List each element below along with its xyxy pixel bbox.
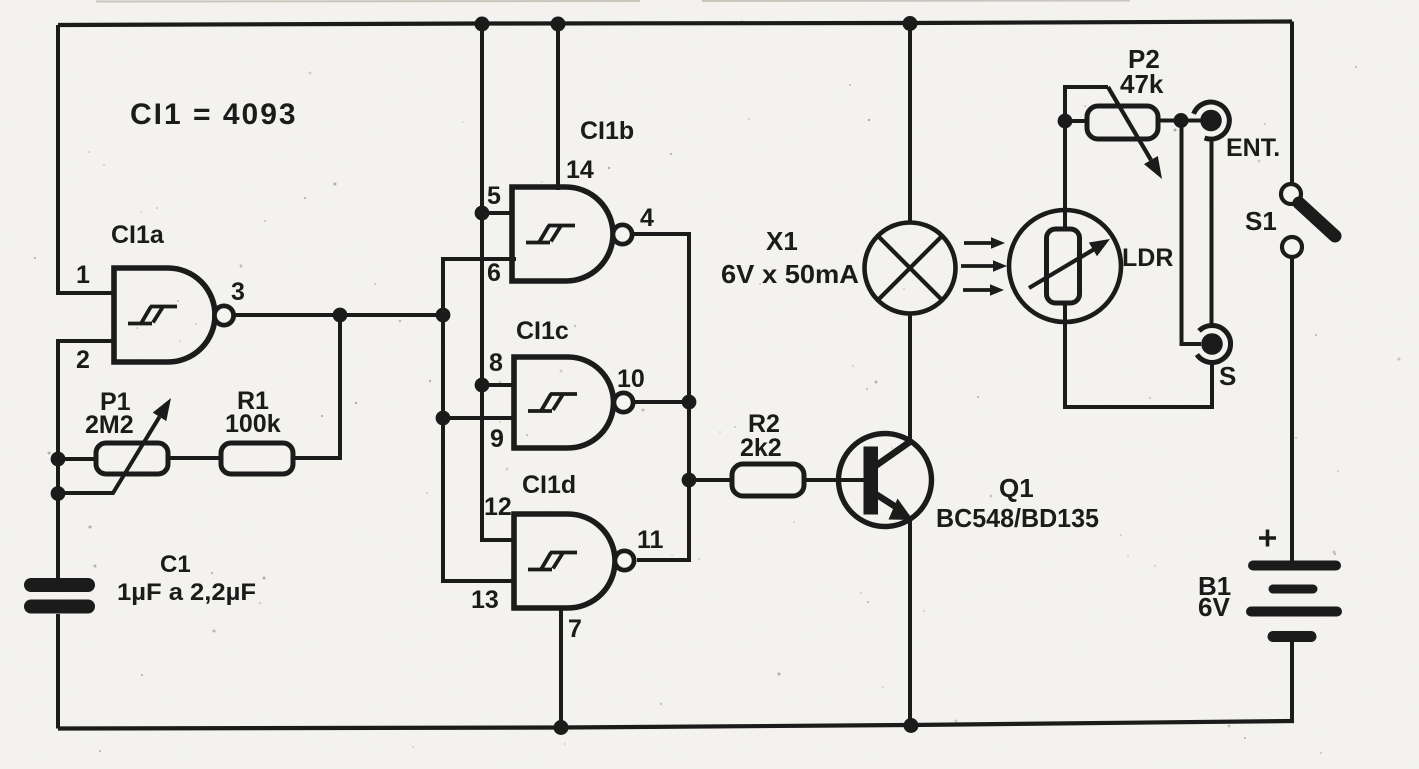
wire: R1 left lead to P1 right lead [168, 456, 221, 460]
svg-text:Q1: Q1 [999, 473, 1034, 503]
svg-text:12: 12 [484, 493, 512, 521]
svg-text:2k2: 2k2 [740, 434, 782, 462]
wire: pin 5 stub [482, 211, 514, 215]
svg-text:7: 7 [568, 615, 582, 643]
svg-text:6V x 50mA: 6V x 50mA [721, 259, 859, 289]
light ray arrow 1 [964, 241, 992, 245]
lamp X1 cross [878, 236, 942, 300]
wire: Q1 emitter down to ground rail [908, 518, 912, 726]
schmitt symbol CI1c [528, 394, 577, 411]
wire: right rail top down to switch S1 [1290, 22, 1294, 185]
wire: CI1a output (pin 3) to gate input bus [234, 313, 443, 317]
jack ENT sleeve arc [1194, 102, 1230, 139]
switch S1 top contact [1281, 184, 1301, 204]
wire: vertical bus x443 (pin6 / pin13) [443, 259, 516, 581]
wire: pin 7 of CI1d to ground rail [559, 608, 563, 728]
LDR resistor body [1047, 229, 1080, 303]
wire: branch down to R1 right terminal [293, 315, 340, 458]
svg-text:2M2: 2M2 [85, 411, 134, 439]
svg-text:47k: 47k [1120, 69, 1164, 99]
transistor Q1 collector stroke [874, 441, 911, 467]
wire: LDR bottom lead and loop to jack S sleeve [1065, 303, 1212, 407]
light ray arrow 2 [961, 264, 993, 268]
svg-text:5: 5 [487, 182, 501, 210]
wire: left rail from top corner down to pin 1 of CI1a [58, 25, 113, 293]
NAND gate CI1d body [514, 514, 615, 608]
svg-text:13: 13 [471, 586, 499, 614]
wire: top rail down to lamp X1 [908, 23, 912, 223]
transistor Q1 body circle [839, 434, 932, 527]
battery B1 plate 4 short [1273, 631, 1311, 642]
battery B1 plate 2 short [1273, 585, 1313, 594]
battery B1 plate 1 long [1253, 561, 1336, 571]
output bubble CI1b [613, 225, 632, 244]
junction dot: P2 right / ENT node [1174, 113, 1189, 128]
wire: P2 wiper tie to left terminal [1065, 87, 1108, 115]
scan artifact line top edge [96, 1, 1130, 2]
junction dot: pin 14 on top rail [551, 17, 566, 32]
wire: pin 14 from top rail to CI1b [556, 24, 560, 191]
wire: pin 9 stub from bus [443, 416, 516, 420]
NAND gate CI1a body [114, 268, 215, 362]
svg-text:11: 11 [637, 526, 664, 554]
schmitt symbol CI1d [528, 553, 577, 570]
jack S sleeve arc [1197, 326, 1231, 363]
svg-text:CI1d: CI1d [522, 471, 576, 499]
transistor Q1 emitter stroke with arrow [874, 493, 896, 507]
svg-text:ENT.: ENT. [1226, 134, 1280, 162]
svg-text:X1: X1 [766, 226, 798, 256]
junction dot: bus x482 on top rail [475, 17, 490, 32]
wire: CI1c output pin 10 to right bus [633, 400, 689, 404]
jack S tip contact [1201, 333, 1223, 355]
wire: P1 left lead to left rail [58, 457, 96, 461]
resistor R1 body [221, 443, 293, 474]
transistor Q1 base bar [864, 447, 879, 515]
wire: Q1 collector up to lamp [908, 313, 912, 442]
wire: right bus to R2 left lead [689, 478, 732, 482]
junction dot: P1 left terminal on left rail [51, 452, 66, 467]
junction dot: pin 9 branch [436, 411, 451, 426]
potentiometer P2 body [1087, 106, 1158, 139]
potentiometer P2 arrow [1108, 87, 1151, 160]
junction dot: pin 7 on ground rail [554, 720, 569, 735]
svg-text:1: 1 [76, 261, 90, 289]
output bubble CI1d [615, 551, 634, 570]
svg-text:CI1a: CI1a [111, 221, 165, 249]
wire: P2 right lead to jack ENT tip [1158, 119, 1202, 123]
lamp X1 circle [865, 223, 956, 314]
battery B1 plate 3 long [1251, 607, 1337, 617]
svg-text:2: 2 [76, 346, 90, 374]
junction dot: R2 node on right bus [682, 473, 697, 488]
junction dot: pin 5 [475, 206, 490, 221]
light ray arrow 3 [963, 288, 991, 292]
wire: switch S1 to battery B1 [1290, 257, 1294, 561]
svg-text:CI1 = 4093: CI1 = 4093 [130, 98, 298, 131]
svg-text:6: 6 [487, 259, 501, 287]
potentiometer P1 wiper arrow [58, 417, 160, 493]
schmitt symbol CI1a [128, 307, 177, 324]
wire: R2 right lead to Q1 base [804, 478, 864, 482]
wire: pin 8 stub [482, 383, 516, 387]
svg-text:C1: C1 [160, 551, 191, 578]
svg-text:BC548/BD135: BC548/BD135 [936, 503, 1099, 533]
svg-text:6V: 6V [1198, 592, 1230, 622]
capacitor C1 plate top [31, 578, 88, 592]
wire: P2 left lead [1065, 119, 1087, 123]
svg-text:CI1b: CI1b [580, 117, 634, 145]
svg-text:S: S [1219, 361, 1236, 391]
wire: bottom ground rail [58, 721, 1294, 729]
capacitor C1 plate bottom [31, 600, 88, 614]
junction dot: pin 10 on right bus [682, 395, 697, 410]
svg-text:LDR: LDR [1122, 244, 1173, 272]
resistor R2 body [732, 464, 804, 496]
svg-text:8: 8 [489, 349, 503, 377]
svg-text:4: 4 [640, 204, 654, 232]
svg-text:CI1c: CI1c [516, 317, 569, 345]
junction dot: node pin3 joins vertical bus [436, 308, 451, 323]
wire: ENT node down to S tip [1182, 121, 1202, 345]
svg-text:1µF a 2,2µF: 1µF a 2,2µF [117, 579, 256, 606]
output bubble CI1a [214, 306, 233, 325]
wire: C1 bottom to ground rail [56, 614, 60, 729]
junction dot: lamp feed on top rail [903, 16, 918, 31]
junction dot: node pin3/R1 [333, 308, 348, 323]
svg-text:S1: S1 [1245, 206, 1277, 236]
wire: LDR top lead [1063, 121, 1067, 229]
wire: top supply rail [58, 22, 1292, 26]
junction dot: P2 left node [1058, 114, 1073, 129]
NAND gate CI1b body [512, 187, 613, 281]
wire: ENT sleeve down to S sleeve [1210, 138, 1214, 327]
switch S1 bottom contact [1282, 237, 1302, 257]
NAND gate CI1c body [514, 357, 614, 448]
junction dot: pin 8 [475, 378, 490, 393]
junction dot: P1 wiper return on left rail [51, 486, 66, 501]
output bubble CI1c [614, 393, 633, 412]
wire: CI1b output pin 4 down right bus to CI1d output pin 11 [631, 234, 689, 560]
switch S1 lever [1299, 203, 1335, 236]
battery plus sign [1259, 530, 1276, 547]
svg-text:14: 14 [566, 156, 594, 184]
jack ENT tip contact [1200, 110, 1222, 132]
wire: pin 2 of CI1a to lower left rail [58, 341, 113, 578]
svg-text:3: 3 [231, 278, 245, 306]
wire: battery B1 to ground rail [1290, 642, 1294, 721]
schmitt symbol CI1b [526, 226, 575, 243]
svg-text:100k: 100k [225, 410, 281, 438]
potentiometer P1 body [96, 443, 168, 474]
LDR arrow [1029, 249, 1094, 288]
wire: vertical bus x482 from top rail (pin5 / pin8 / pin12) [482, 24, 516, 541]
LDR circle [1009, 210, 1121, 322]
svg-text:9: 9 [490, 425, 504, 453]
svg-text:10: 10 [617, 365, 645, 393]
junction dot: emitter on ground rail [904, 718, 919, 733]
